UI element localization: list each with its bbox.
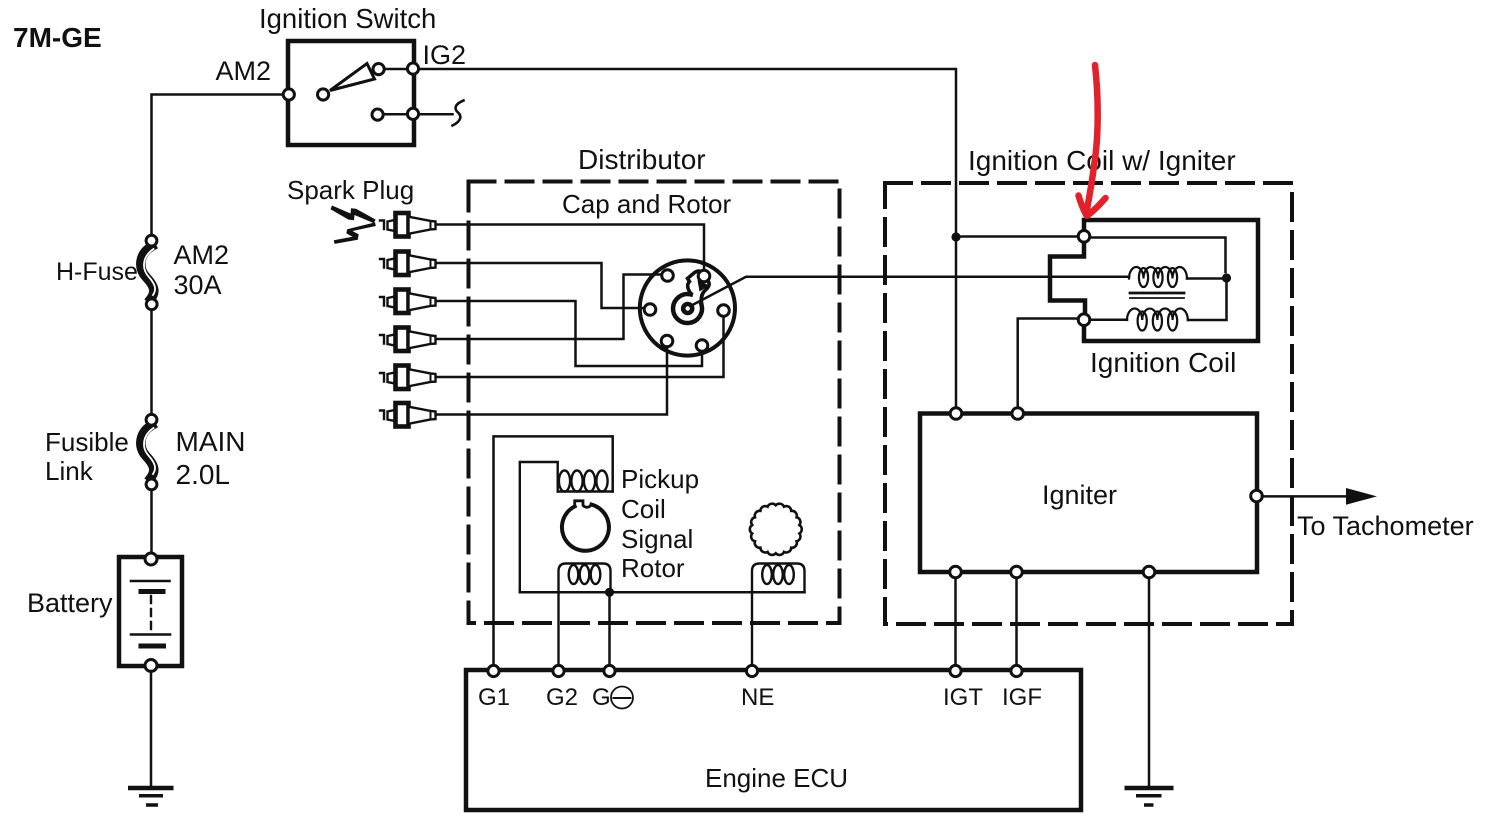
spark plug 4 [380,328,436,352]
fusible link top terminal [146,414,157,425]
distributor rotor arm [688,271,703,293]
wire igniter IGF to ECU [1015,578,1018,666]
ignition switch lever to IG2 wire [384,68,407,71]
svg-text:Coil: Coil [621,494,666,524]
wire igniter to ground [1148,578,1151,786]
wire AM2: switch to fuse [152,95,284,235]
wire battery to ground [150,671,153,786]
cap terminal right [718,305,730,317]
spark lightning bolt upper [331,206,376,224]
engine ECU box [466,670,1081,810]
spark plug 6 [380,403,436,427]
pickup coil winding G2 (bottom) [559,564,611,673]
svg-text:AM2: AM2 [216,56,272,86]
junction node G- [605,588,614,597]
wire fuse to fusible link [150,310,153,414]
distributor rotor center electrode [681,302,695,316]
wire plug1 to cap terminal [436,225,704,270]
battery top terminal [145,553,157,565]
ignition switch SW1 box [288,41,414,145]
rotor HV line to ignition coil [690,277,1130,307]
igniter terminal +B [950,408,962,420]
ECU terminal NE [746,665,757,676]
wire igniter IGT to ECU [954,578,957,666]
fusible link squiggle element [141,426,154,478]
svg-text:Rotor: Rotor [621,553,685,583]
cap terminal top-right [698,270,710,282]
igniter terminal tach [1251,490,1263,502]
spark plug 1 [380,213,436,237]
wire coil plus internal [1090,238,1226,273]
svg-text:Engine ECU: Engine ECU [705,763,848,793]
distributor rotor ring [673,294,702,323]
igniter terminal ground [1143,566,1155,578]
wire IG2: switch to igniter supply [419,69,956,409]
wire secondary to common junction [1187,277,1222,280]
ignition switch terminal IG2 [407,63,418,74]
ground (battery) [128,788,174,805]
wire plug6 to cap terminal [436,348,667,415]
svg-text:IG2: IG2 [423,40,467,70]
ECU terminal G1 [488,665,499,676]
fuse H-Fuse squiggle element [141,247,154,299]
ignition coil primary winding [1127,309,1188,331]
spark plug 3 [380,290,436,314]
ignition switch lever tip contact [373,64,384,75]
battery bottom terminal [145,660,157,672]
wire plug5 to cap terminal [436,318,724,377]
battery plate long top [131,580,170,583]
distributor rotor tip wedge [698,280,710,292]
ignition switch lower contact [372,109,383,120]
fuse H-Fuse top terminal [146,235,157,246]
svg-text:Distributor: Distributor [578,144,706,175]
svg-text:Ignition Coil: Ignition Coil [1090,347,1236,378]
red annotation arrow [1079,65,1106,216]
battery internal dashed link [150,596,152,629]
cap terminal bottom-right [696,340,708,352]
NE signal rotor gear [750,504,802,555]
wire plug2 to cap terminal [436,263,643,308]
ground (igniter) [1125,788,1174,805]
ignition switch break squiggle [453,101,464,126]
wire pickup common to junction [520,591,805,594]
wire igniter to coil minus terminal [1018,319,1078,414]
svg-text:IGT: IGT [943,684,983,711]
ECU terminal IGF [1011,665,1022,676]
ignition coil plus terminal [1078,231,1090,243]
battery plate long bottom [131,633,170,636]
spark plug 5 [380,366,436,390]
ignition coil T1 case outline with HV tower [1050,220,1258,341]
igniter terminal coil minus [1012,408,1024,420]
svg-text:To Tachometer: To Tachometer [1297,511,1474,541]
ignition coil minus terminal [1078,314,1090,326]
battery BAT box [119,557,182,666]
pickup coil winding G (top) [520,462,613,592]
svg-text:NE: NE [741,684,774,711]
cap terminal bottom-left [661,335,673,347]
ignition switch lever contact arm [330,64,375,91]
wire primary to common junction [1090,283,1227,320]
svg-text:AM2: AM2 [174,240,230,270]
svg-text:G: G [592,684,611,711]
ignition coil secondary winding [1129,267,1187,287]
fusible link bottom terminal [146,479,157,490]
distributor cap circle [640,260,735,355]
cap terminal top-left [662,270,674,282]
svg-text:Igniter: Igniter [1042,480,1117,510]
svg-text:7M-GE: 7M-GE [13,22,102,53]
ignition coil w/ igniter dashed enclosure [885,183,1292,624]
svg-text:Battery: Battery [27,588,113,618]
wire plug3 to cap terminal [436,301,702,366]
svg-text:Signal: Signal [621,524,693,554]
svg-text:2.0L: 2.0L [176,459,231,490]
battery plate short bottom [141,644,164,649]
wire junction to coil plus terminal [956,235,1078,238]
pickup coil winding NE [752,564,805,673]
svg-text:Link: Link [45,456,94,486]
ignition switch lower contact wire [385,113,453,116]
svg-text:IGF: IGF [1002,684,1042,711]
wire to tachometer with arrowhead [1262,495,1348,498]
svg-text:30A: 30A [174,270,222,300]
fuse H-Fuse bottom terminal [146,299,157,310]
wire G1: ECU to pickup coil [494,436,613,672]
ignition switch terminal AM2 [283,89,294,100]
spark plug 2 [380,252,436,276]
svg-text:MAIN: MAIN [176,426,246,457]
junction node +B to coil [951,232,960,241]
svg-text:H-Fuse: H-Fuse [56,258,138,286]
ignition switch pole contact [318,89,329,100]
ECU terminal G- [604,665,615,676]
svg-text:Cap and Rotor: Cap and Rotor [562,189,731,219]
wire fusible link to battery [150,490,153,554]
spark lightning bolt lower [334,222,376,244]
cap terminal left [644,304,656,316]
svg-text:Pickup: Pickup [621,464,699,494]
svg-text:Spark Plug: Spark Plug [287,175,414,205]
igniter terminal IGF [1011,566,1023,578]
svg-text:Fusible: Fusible [45,427,129,457]
distributor dashed enclosure [469,182,840,624]
igniter terminal IGT [950,566,962,578]
wire plug4 to cap terminal [436,275,661,340]
pickup signal rotor key notch [575,501,592,507]
ECU terminal G2 [553,665,564,676]
svg-text:G2: G2 [546,684,578,711]
ECU terminal IGT [950,665,961,676]
ignition coil core [1130,292,1184,295]
igniter U1 box [920,414,1257,573]
svg-text:G1: G1 [478,684,510,711]
ignition switch lower terminal [407,108,418,119]
svg-text:Ignition Coil w/ Igniter: Ignition Coil w/ Igniter [968,145,1236,176]
junction node coil common [1222,273,1231,282]
svg-text:Ignition Switch: Ignition Switch [259,3,436,34]
battery plate short top [141,589,163,594]
pickup signal rotor G [562,505,609,551]
wire junction to ECU G- [608,592,611,672]
